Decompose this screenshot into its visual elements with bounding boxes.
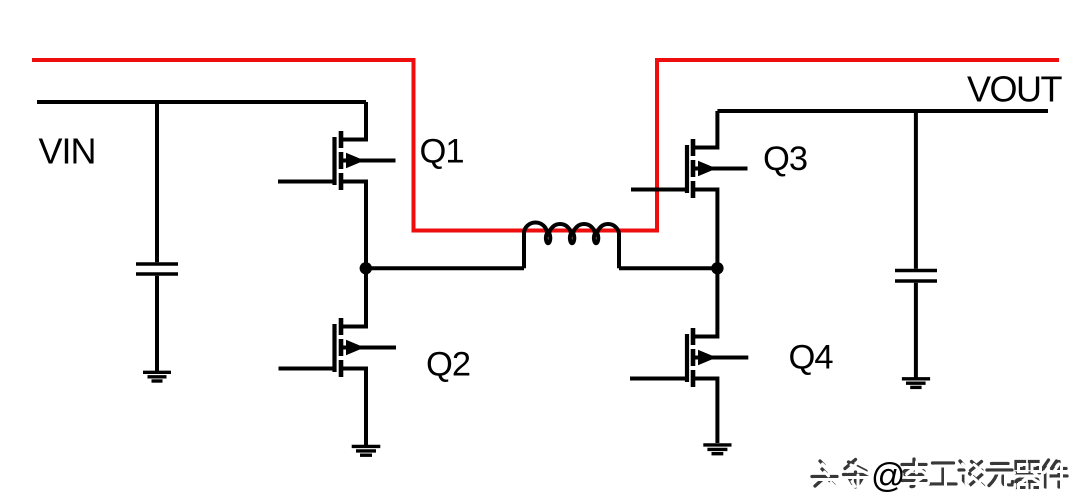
工 white	[933, 466, 959, 487]
ground GND Q4	[703, 445, 731, 454]
transistor Q1	[278, 102, 396, 268]
wire VOUT rail	[717, 109, 1048, 113]
transistor Q2	[279, 268, 397, 446]
svg-text:@: @	[871, 457, 906, 495]
transistor Q4	[630, 268, 748, 443]
capacitor C_out top lead wire	[914, 111, 918, 269]
watermark 头条@李工谈元器件	[812, 457, 1070, 495]
谈	[959, 461, 984, 486]
capacitor C_in bottom lead wire	[155, 276, 159, 372]
svg-text:Q1: Q1	[420, 133, 464, 171]
元 white	[990, 467, 1016, 489]
capacitor C_in plates	[136, 264, 178, 274]
条	[844, 460, 868, 488]
头 white	[815, 464, 840, 489]
ground GND input	[143, 372, 171, 381]
capacitor C_out plates	[895, 271, 937, 282]
条 white	[846, 463, 870, 491]
capacitor C_out bottom lead wire	[914, 283, 918, 379]
谈 white	[962, 464, 987, 489]
器 white	[1017, 465, 1042, 491]
svg-text:Q3: Q3	[763, 140, 807, 178]
svg-text:Q4: Q4	[789, 339, 834, 377]
svg-text:VOUT: VOUT	[967, 69, 1063, 110]
node B junction dot	[711, 262, 723, 274]
器	[1015, 462, 1040, 488]
inductor L	[524, 223, 619, 269]
node A junction dot	[360, 262, 372, 274]
wire VIN rail	[37, 100, 366, 104]
元	[987, 464, 1013, 486]
工	[930, 463, 956, 484]
wire switch node left	[366, 266, 524, 270]
头	[812, 461, 837, 486]
ground GND output	[902, 379, 930, 388]
李	[902, 459, 926, 487]
svg-text:Q2: Q2	[426, 345, 470, 383]
李 white	[905, 462, 929, 490]
svg-text:VIN: VIN	[39, 131, 96, 172]
red current path highlight	[32, 60, 1059, 231]
件 white	[1045, 463, 1070, 490]
transistor Q3	[631, 111, 748, 268]
wire switch node right	[619, 266, 717, 270]
ground GND Q2	[352, 446, 381, 455]
件	[1042, 460, 1067, 487]
capacitor C_in top lead wire	[155, 102, 159, 262]
